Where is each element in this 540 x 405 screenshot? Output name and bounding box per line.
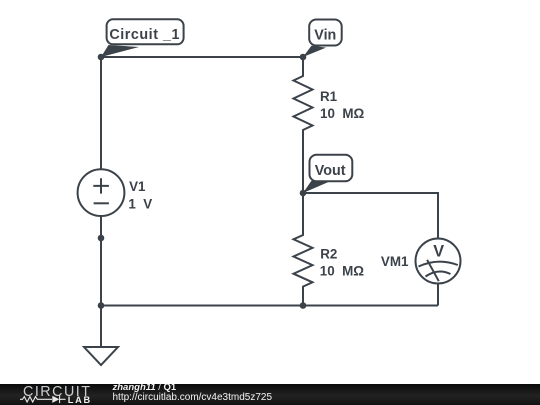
svg-text:V: V (433, 243, 444, 261)
svg-text:10 MΩ: 10 MΩ (320, 106, 364, 121)
svg-text:R1: R1 (320, 89, 338, 104)
svg-text:1 V: 1 V (128, 197, 152, 212)
svg-text:10 MΩ: 10 MΩ (320, 264, 364, 279)
svg-text:V1: V1 (129, 179, 146, 194)
svg-text:Circuit _1: Circuit _1 (109, 27, 180, 43)
svg-text:Vin: Vin (314, 28, 336, 44)
svg-text:VM1: VM1 (381, 254, 409, 269)
svg-text:LAB: LAB (68, 395, 92, 405)
svg-text:R2: R2 (320, 247, 337, 262)
svg-text:Vout: Vout (315, 163, 346, 179)
